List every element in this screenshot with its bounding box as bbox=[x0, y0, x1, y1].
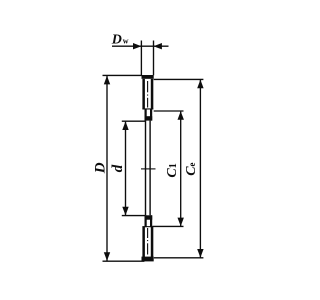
wire Ce dimension line bbox=[199, 80, 201, 258]
svg-text:d: d bbox=[110, 164, 126, 172]
component bottom roller outer cap (cage outer rail) bbox=[142, 257, 154, 262]
wire Dw dimension line left segment bbox=[112, 45, 169, 47]
wire d top extension line bbox=[122, 120, 146, 122]
component bottom cage neck right wall bbox=[150, 215, 152, 227]
wire D dimension line bbox=[106, 76, 108, 261]
wire bottom roller axis dash-dot bbox=[147, 228, 149, 238]
node Ce arrow top (points up) bbox=[197, 80, 203, 89]
wire Ce top extension line bbox=[154, 78, 204, 80]
wire cage bore line right bbox=[149, 121, 151, 216]
wire C1 bottom extension line bbox=[152, 225, 183, 227]
wire Dw extension line left bbox=[140, 41, 142, 76]
node C1 arrow bottom (points down) bbox=[178, 218, 184, 227]
wire d bottom extension line bbox=[122, 215, 146, 217]
wire top roller shoulder line bbox=[142, 108, 153, 109]
component top cage neck right wall bbox=[150, 109, 152, 121]
wire center tick bbox=[141, 168, 156, 170]
wire Dw extension line right bbox=[153, 41, 155, 76]
node d arrow bottom (points down) bbox=[122, 207, 128, 216]
svg-text:D: D bbox=[92, 162, 108, 174]
component top roller right wall bbox=[151, 79, 154, 109]
component top cage neck left wall bbox=[145, 109, 147, 121]
component top roller left wall bbox=[142, 79, 145, 109]
wire C1 top extension line bbox=[154, 110, 184, 112]
svg-text:Ce: Ce bbox=[184, 162, 199, 175]
wire Ce bottom extension line bbox=[154, 257, 204, 259]
node Dw arrow right (points left) bbox=[154, 43, 162, 49]
component bottom roller right wall bbox=[151, 227, 154, 257]
svg-text:C1: C1 bbox=[165, 163, 180, 177]
wire D bottom extension line bbox=[103, 260, 145, 262]
wire C1 dimension line bbox=[180, 112, 182, 226]
wire bottom roller shoulder line bbox=[142, 226, 153, 227]
component bottom cage neck top cap bbox=[145, 215, 153, 219]
node D arrow top (points up) bbox=[104, 76, 110, 85]
wire D top extension line bbox=[103, 74, 142, 76]
component top cage neck bottom cap bbox=[145, 116, 153, 120]
node D arrow bottom (points down) bbox=[104, 252, 110, 261]
svg-text:D: D bbox=[111, 33, 122, 48]
component top roller outer cap (cage outer rail) bbox=[142, 75, 154, 79]
node d arrow top (points up) bbox=[122, 121, 128, 130]
node Ce arrow bottom (points down) bbox=[197, 249, 203, 258]
wire d dimension line bbox=[125, 122, 127, 216]
component bottom roller left wall bbox=[142, 227, 145, 257]
svg-text:w: w bbox=[123, 37, 129, 46]
component bottom cage neck left wall bbox=[145, 215, 147, 227]
wire top roller axis dash-dot bbox=[147, 81, 149, 92]
node C1 arrow top (points up) bbox=[178, 111, 184, 120]
node Dw arrow left (points right) bbox=[133, 43, 141, 49]
wire cage bore line left bbox=[145, 121, 147, 216]
